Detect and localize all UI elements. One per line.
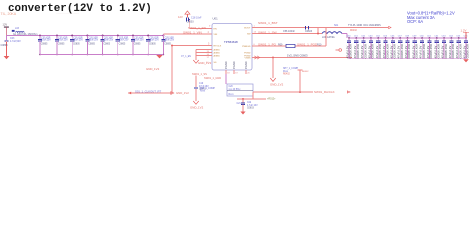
svg-text:C0805 X5R: C0805 X5R: [458, 44, 462, 58]
svg-text:OCP: 6A: OCP: 6A: [407, 19, 423, 24]
svg-text:VSNS: VSNS: [245, 57, 251, 59]
svg-text:C0603: C0603: [305, 30, 313, 33]
svg-text:C05 X5R: C05 X5R: [134, 37, 144, 39]
svg-text:C05 X5R: C05 X5R: [165, 37, 175, 39]
svg-text:C0805: C0805: [103, 43, 110, 45]
svg-text:C19: C19: [199, 83, 204, 85]
svg-text:C0805 X5R: C0805 X5R: [436, 44, 440, 58]
svg-text:C0603: C0603: [247, 107, 254, 109]
svg-text:C05 X5R: C05 X5R: [89, 37, 99, 39]
svg-text:TIL, 20KA: TIL, 20KA: [1, 12, 17, 16]
svg-text:C05 X5R: C05 X5R: [119, 37, 129, 39]
svg-text:Rxxx: Rxxx: [200, 91, 206, 93]
svg-text:10uF,25V: 10uF,25V: [89, 40, 99, 42]
svg-text:10uF,25V: 10uF,25V: [104, 40, 114, 42]
svg-text:C0805 X5R: C0805 X5R: [400, 44, 404, 58]
svg-text:PGND: PGND: [244, 55, 251, 57]
svg-text:TPS54618: TPS54618: [224, 40, 238, 44]
svg-text:C05 X5R: C05 X5R: [58, 37, 68, 39]
svg-text:4.7uF 16V: 4.7uF 16V: [247, 105, 258, 107]
svg-text:C0805 X5R: C0805 X5R: [407, 44, 411, 58]
svg-text:L01 1uH/9A: L01 1uH/9A: [322, 36, 335, 39]
svg-text:L03: L03: [15, 27, 20, 30]
svg-text:RT/CLK: RT/CLK: [214, 45, 222, 47]
svg-text:GND_1V2: GND_1V2: [270, 82, 284, 86]
svg-text:SW01_1_BST: SW01_1_BST: [258, 21, 278, 25]
svg-text:SW01_1_SW: SW01_1_SW: [258, 30, 277, 34]
svg-text:C05 X5R: C05 X5R: [41, 37, 51, 39]
svg-text:S01_1_CLKOUT_RT: S01_1_CLKOUT_RT: [135, 89, 162, 93]
svg-text:Rxxx: Rxxx: [229, 94, 235, 96]
svg-text:10uF,25V: 10uF,25V: [165, 40, 175, 42]
svg-text:C0805: C0805: [41, 43, 48, 45]
svg-text:EN: EN: [214, 28, 217, 30]
svg-text:C0805 X5R: C0805 X5R: [356, 44, 360, 58]
svg-text:GND_1V2: GND_1V2: [190, 106, 204, 110]
svg-text:SW01_1_PGD: SW01_1_PGD: [297, 43, 318, 47]
svg-text:+R012+: +R012+: [267, 98, 276, 101]
svg-text:10uF,25V: 10uF,25V: [134, 40, 144, 42]
svg-text:C0805 X5R: C0805 X5R: [393, 44, 397, 58]
svg-text:C21: C21: [237, 103, 242, 105]
svg-text:..........................: ..........................: [56, 11, 79, 15]
svg-text:PGND: PGND: [244, 52, 251, 54]
svg-text:10uF,25V: 10uF,25V: [119, 40, 129, 42]
svg-text:47nF,16V: 47nF,16V: [199, 86, 209, 88]
svg-text:U01: U01: [213, 17, 219, 21]
svg-text:SW01_RA/CLK: SW01_RA/CLK: [314, 90, 335, 94]
svg-text:SW01_1_VIN: SW01_1_VIN: [183, 31, 202, 35]
svg-text:C0805 X5R: C0805 X5R: [385, 44, 389, 58]
svg-text:4.7uF,50V: 4.7uF,50V: [10, 40, 21, 43]
svg-text:C18 10nF: C18 10nF: [191, 16, 202, 19]
svg-text:C0805 X5R: C0805 X5R: [444, 44, 448, 58]
svg-text:C0805: C0805: [119, 43, 126, 45]
svg-text:R0402: R0402: [350, 30, 357, 32]
svg-text:R10: R10: [317, 44, 322, 47]
svg-text:C05 X5R: C05 X5R: [149, 37, 159, 39]
svg-text:GND_1V2: GND_1V2: [198, 61, 212, 65]
svg-text:PWRGD: PWRGD: [242, 46, 251, 48]
svg-text:BOOT: BOOT: [244, 27, 251, 29]
svg-text:C0603: C0603: [187, 20, 195, 23]
svg-text:GND_1V2: GND_1V2: [176, 91, 189, 95]
svg-text:C05 X5R: C05 X5R: [104, 37, 114, 39]
svg-text:S01: S01: [334, 24, 339, 27]
svg-text:VIN: VIN: [214, 34, 218, 36]
svg-text:C05 X5R: C05 X5R: [73, 37, 83, 39]
svg-text:C0805: C0805: [88, 43, 95, 45]
svg-text:10uF,25V: 10uF,25V: [149, 40, 159, 42]
svg-text:C0805: C0805: [149, 43, 156, 45]
svg-text:C0805 X5R: C0805 X5R: [363, 44, 367, 58]
svg-text:C0805: C0805: [1, 44, 9, 47]
svg-text:C22: C22: [247, 102, 252, 104]
svg-text:converter(12V to 1.2V): converter(12V to 1.2V): [8, 3, 152, 15]
svg-text:GND_1V2: GND_1V2: [146, 67, 160, 71]
svg-text:C0805 X5R: C0805 X5R: [349, 44, 353, 58]
svg-text:C0805: C0805: [164, 43, 171, 45]
svg-text:10uF,25V: 10uF,25V: [73, 40, 83, 42]
svg-text:C0805 X5R: C0805 X5R: [466, 44, 470, 58]
svg-text:C0805 X5R: C0805 X5R: [415, 44, 419, 58]
svg-text:C0805 X5R: C0805 X5R: [371, 44, 375, 58]
svg-text:R0402: R0402: [283, 74, 290, 76]
svg-text:C0805: C0805: [58, 43, 65, 45]
svg-text:10uF,25V: 10uF,25V: [58, 40, 68, 42]
svg-text:C0805: C0805: [134, 43, 141, 45]
svg-text:C0805 X5R: C0805 X5R: [378, 44, 382, 58]
svg-text:R09: R09: [278, 44, 283, 47]
svg-text:C0805 X5R: C0805 X5R: [451, 44, 455, 58]
svg-text:R08_1_COMP: R08_1_COMP: [200, 88, 215, 90]
svg-text:C20: C20: [229, 86, 234, 88]
svg-text:C56 100nF: C56 100nF: [283, 30, 295, 33]
svg-text:Rxxx: Rxxx: [283, 71, 289, 73]
svg-text:T?A PL 100R D01 1N4148WS: T?A PL 100R D01 1N4148WS: [348, 24, 381, 27]
svg-text:C0805: C0805: [73, 43, 80, 45]
svg-text:R0402: R0402: [302, 71, 309, 73]
svg-text:10uF,25V: 10uF,25V: [41, 40, 51, 42]
svg-text:SW01_1_EN: SW01_1_EN: [188, 26, 206, 30]
svg-text:C0805 X5R: C0805 X5R: [422, 44, 426, 58]
svg-text:C0805 X5R: C0805 X5R: [429, 44, 433, 58]
svg-text:SW01_1_PG: SW01_1_PG: [258, 43, 277, 47]
svg-text:NP?_1_COMP: NP?_1_COMP: [283, 68, 299, 70]
svg-text:C?_1_EN: C?_1_EN: [181, 56, 191, 58]
